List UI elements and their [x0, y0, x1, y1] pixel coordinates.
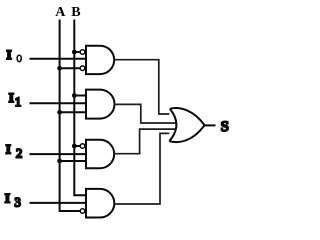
wire input I3	[30, 202, 87, 204]
or-gate U5 top curve	[170, 108, 205, 125]
wire U1 output to OR top input	[114, 60, 170, 114]
junction dot B/U3	[72, 144, 77, 149]
wire U4 output to OR bottom input	[114, 133, 170, 204]
wire U3 bottom input stub from A	[60, 160, 86, 162]
svg-text:I: I	[7, 47, 12, 62]
wire input I2	[30, 153, 87, 155]
svg-text:I: I	[6, 141, 11, 156]
or-gate U5 bottom curve	[169, 125, 204, 142]
inverter bubble U1 bottom	[80, 66, 85, 71]
junction dot A/U3	[57, 159, 62, 164]
junction dot B/U2	[72, 93, 77, 98]
svg-text:I: I	[9, 90, 14, 105]
inverter bubble U3 top	[80, 144, 85, 149]
svg-text:A: A	[55, 5, 66, 20]
wire U3 output to OR third input	[114, 129, 177, 154]
svg-text:1: 1	[15, 95, 21, 109]
wire select line B vertical with elbow to U4 top input	[74, 20, 86, 196]
wire U2 output to OR second input	[114, 104, 177, 123]
svg-text:B: B	[71, 5, 80, 20]
inverter bubble U1 top	[80, 50, 85, 55]
svg-text:2: 2	[16, 147, 22, 161]
svg-text:I: I	[5, 191, 10, 206]
wire input I0	[30, 58, 87, 60]
junction dot A/U2	[57, 110, 62, 115]
wire U3 top input stub from B	[74, 145, 80, 147]
and-gate U2 (I1 term)	[86, 90, 114, 119]
svg-text:3: 3	[15, 195, 21, 209]
svg-text:S: S	[221, 119, 229, 135]
wire select line A vertical with elbow to U4 lower bubble	[60, 20, 81, 212]
or-gate U5 concave input edge	[169, 109, 176, 141]
wire U2 bottom input stub from A	[60, 111, 86, 113]
wire U1 bottom input stub from A	[60, 67, 81, 69]
node I0 subscript	[17, 55, 21, 62]
wire U2 top input stub from B	[74, 95, 86, 97]
wire output S	[205, 124, 216, 126]
junction dot A/U1	[57, 66, 62, 71]
wire input I1	[30, 102, 87, 104]
inverter bubble U4 bottom	[80, 209, 85, 214]
and-gate U1 (I0 term)	[86, 46, 114, 74]
junction dot B/U1	[72, 50, 77, 55]
and-gate U4 (I3 term)	[86, 189, 114, 218]
wire U1 top input stub from B	[74, 51, 80, 53]
and-gate U3 (I2 term)	[86, 140, 114, 168]
